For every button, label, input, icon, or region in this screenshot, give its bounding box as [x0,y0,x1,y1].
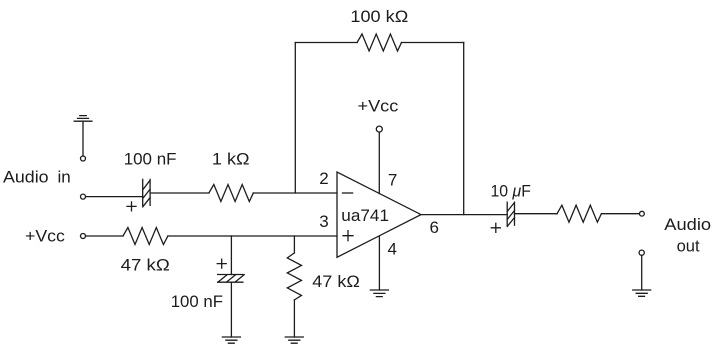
wire C3 to R5 [515,213,558,215]
wire pin 6 output to C3 [421,214,507,216]
wire C1 to R1 [150,192,209,194]
polarity + of C1 [127,202,136,211]
wire Audio in to C1 [86,196,143,198]
svg-text:7: 7 [388,171,397,190]
svg-text:+Vcc: +Vcc [358,97,399,116]
capacitor C3 10 uF (output coupling) [507,202,514,226]
svg-text:10 μF: 10 μF [491,182,531,201]
wire C2 branch down [230,236,232,275]
terminal (+Vcc left) [81,234,86,239]
wire C2 to ground [230,282,232,337]
polarity + of C3 [491,223,500,232]
wire Audio out reference to ground [641,255,643,290]
terminal (Audio out) [640,211,645,216]
wire pin 4 [378,236,380,290]
ground (R4) [285,337,303,343]
op-amp non-inverting input plus mark [343,231,353,241]
ground (Audio out) [633,290,651,296]
svg-text:3: 3 [319,212,328,231]
terminal (Audio in) [81,194,86,199]
wire feedback top right [402,42,464,44]
svg-text:4: 4 [388,239,397,258]
svg-text:47 kΩ: 47 kΩ [312,272,360,291]
wire feedback top left [295,42,357,44]
capacitor C1 100 nF (input coupling) [143,179,150,207]
svg-text:Audioin: Audioin [3,168,71,187]
capacitor C2 100 nF (decoupling) [218,275,245,283]
svg-text:100 nF: 100 nF [171,292,223,311]
svg-text:6: 6 [430,218,439,237]
svg-text:2: 2 [319,169,328,188]
wire feedback right vertical [463,43,465,215]
svg-text:out: out [677,237,700,256]
wire R4 to ground [293,300,295,337]
resistor R2 100 k (feedback) [357,34,401,51]
svg-text:Audio: Audio [664,215,711,234]
svg-text:100 nF: 100 nF [124,149,177,168]
polarity + of C2 [217,259,226,268]
op-amp inverting input minus mark [343,192,353,194]
terminal (+Vcc top) [376,126,382,132]
svg-text:100 kΩ: 100 kΩ [350,7,408,26]
wire R3 to op-amp pin 3 [168,235,337,237]
wire feedback left vertical [294,43,296,194]
resistor R5 (output series) [557,205,601,222]
resistor R3 47 k (bias) [123,228,168,245]
wire R4 branch down [293,236,295,253]
ground (pin 4) [370,290,388,297]
svg-text:ua741: ua741 [341,206,389,225]
wire +Vcc to R3 [86,235,124,237]
wire R1 to op-amp pin 2 [253,192,337,194]
terminal (Audio out ground reference circle) [639,250,644,255]
svg-text:1 kΩ: 1 kΩ [212,149,250,168]
svg-text:+Vcc: +Vcc [25,226,65,245]
svg-text:47 kΩ: 47 kΩ [121,256,170,275]
wire pin 7 [378,132,380,194]
resistor R4 47 k (vertical) [287,253,301,300]
ground (C2) [222,337,240,343]
wire R5 to Audio out [601,213,639,215]
resistor R1 1 k [209,185,253,202]
terminal (Audio in upper reference circle) [81,156,86,161]
op-amp U1 ua741 triangle [337,172,421,257]
ground (input reference, inverted above Audio in terminal) [74,116,92,156]
